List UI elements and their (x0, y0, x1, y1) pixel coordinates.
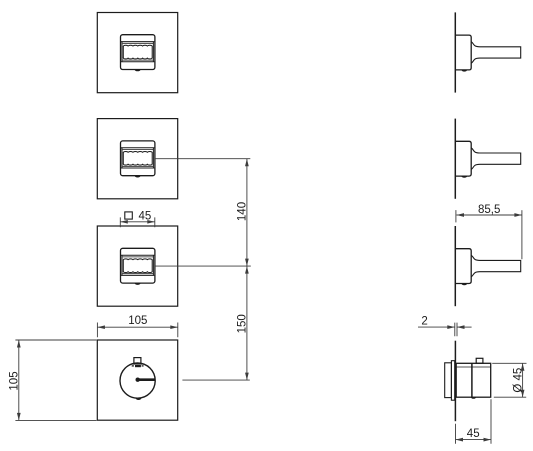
knob 3: bottom inner shoulder line (123, 273, 153, 275)
svg-text:Ø 45: Ø 45 (512, 368, 524, 393)
svg-text:105: 105 (8, 371, 20, 390)
knob 3: top inner shoulder line (123, 256, 153, 258)
front view 2 plate: square wall plate (97, 119, 177, 199)
svg-text:45: 45 (467, 428, 480, 440)
knob 1: right inner edge (152, 42, 154, 62)
thermostat knob: lever pointer (138, 378, 155, 381)
extension line from knob 2 center (155, 158, 250, 160)
side view 4: collar/body divider line (471, 363, 473, 397)
thermostat knob: bottom index notch (136, 398, 142, 400)
knob 2: bottom cap separator line (121, 167, 154, 169)
side view 4: flange ring behind plate (451, 361, 454, 401)
knob 2: top cap separator line (121, 147, 154, 149)
knob 1: top inner shoulder line (123, 42, 153, 44)
top 105 dimension line (97, 326, 177, 328)
side view 3: base bottom notch (461, 284, 467, 286)
thermostat knob: round body (120, 363, 155, 398)
knob 1: left inner edge (121, 42, 123, 62)
svg-text:45: 45 (139, 211, 152, 223)
thermostat knob: top button tab (134, 358, 141, 364)
knob 3: knurled grip side edges (123, 260, 152, 272)
side view 3: lever stem profile (471, 255, 521, 276)
knob 1: bottom inner shoulder line (123, 59, 153, 61)
thickness 2 dimension: leader line right (457, 326, 472, 328)
thickness 2 dimension: extension ticks (455, 323, 457, 337)
side view 2: handle base flange (456, 141, 471, 176)
knob 2: right inner edge (152, 148, 154, 168)
svg-text:150: 150 (236, 314, 248, 333)
knob 2: bottom index notch (135, 176, 141, 178)
svg-text:140: 140 (236, 202, 248, 221)
left 105 dimension: extension lines (15, 340, 96, 420)
side view 2: base bottom notch (461, 176, 467, 178)
front view 4 plate: square wall plate (97, 340, 177, 420)
knob 2: bottom inner shoulder line (123, 165, 153, 167)
thickness 2 dimension: leader line left (418, 326, 455, 328)
knob 1: knurled grip side edges (123, 46, 152, 58)
knob 2: left inner edge (121, 148, 123, 168)
knob 3: square knurled knob outer body (121, 248, 155, 283)
front view 3 plate: square wall plate (97, 226, 177, 306)
knob 2: knurled grip side edges (123, 152, 152, 164)
side view 4: wall plate edge line (454, 341, 456, 422)
square-45 dimension: extension ticks (120, 217, 155, 227)
thermostat knob: tab base line (131, 363, 143, 365)
knob 3: right inner edge (152, 255, 154, 275)
knob 1: square knurled knob outer body (121, 35, 155, 70)
knob 1: top cap separator line (121, 41, 154, 43)
side view 1: wall plate edge line (454, 12, 456, 92)
square-45 dimension: square symbol (125, 212, 133, 219)
85,5 dimension: right extension line (521, 210, 523, 259)
side view 4: top button tab (476, 358, 483, 363)
extension line from thermostat lever (182, 379, 249, 381)
side view 4: body top surface line (456, 366, 491, 368)
knob 1: bottom index notch (135, 70, 141, 72)
diameter 45 dimension line (522, 363, 524, 397)
side view 3: handle base flange (456, 249, 471, 284)
side view 4: bottom notch (471, 397, 476, 399)
knob 3: bottom cap separator line (121, 274, 154, 276)
side view 2: lever stem profile (471, 148, 521, 170)
knob 2: square knurled knob outer body (121, 141, 155, 176)
knob 3: knurled grip top scalloped edge (123, 259, 152, 260)
top 105 dimension: extension lines (97, 323, 177, 338)
diameter 45 dimension: extension lines (492, 363, 526, 397)
knob 2: knurled grip top scalloped edge (123, 151, 152, 152)
dimension line 140 (246, 159, 248, 266)
svg-text:2: 2 (421, 315, 427, 327)
left 105 dimension line (18, 340, 20, 420)
knob 2: knurled grip bottom scalloped edge (123, 164, 152, 165)
knob 1: knurled grip top scalloped edge (123, 45, 152, 46)
dimension line 150 (246, 266, 248, 380)
knob 2: top inner shoulder line (123, 149, 153, 151)
front view 1 plate: square wall plate (97, 13, 177, 93)
thermostat knob: marker left tick (132, 365, 134, 367)
thermostat knob: marker right tick (142, 365, 144, 367)
svg-text:85,5: 85,5 (478, 204, 500, 216)
thermostat knob: temperature marker bar (135, 365, 141, 367)
side view 1: base bottom notch (461, 70, 467, 72)
bottom 45 dimension line (456, 439, 492, 441)
extension line from knob 3 center (155, 265, 251, 267)
side view 4: knob cylinder body (456, 363, 491, 397)
knob 1: bottom cap separator line (121, 61, 154, 63)
85,5 dimension: left extension tick (455, 210, 457, 222)
knob 3: bottom index notch (135, 283, 141, 285)
85,5 dimension line (457, 214, 522, 216)
knob 1: knurled grip bottom scalloped edge (123, 58, 152, 59)
side view 1: handle base flange (456, 35, 471, 70)
knob 3: knurled grip bottom scalloped edge (123, 271, 152, 272)
side view 3: wall plate edge line (454, 226, 456, 306)
knob 3: top cap separator line (121, 254, 154, 256)
bottom 45 dimension: extension lines (456, 399, 492, 444)
thermostat knob: lever hub dot (136, 378, 140, 382)
side view 1: lever stem profile (471, 42, 521, 64)
knob 3: left inner edge (121, 255, 123, 275)
square-45 dimension line (120, 221, 155, 223)
side view 2: wall plate edge line (454, 119, 456, 199)
side view 4: recessed valve body behind wall (445, 363, 452, 398)
svg-text:105: 105 (128, 315, 147, 327)
